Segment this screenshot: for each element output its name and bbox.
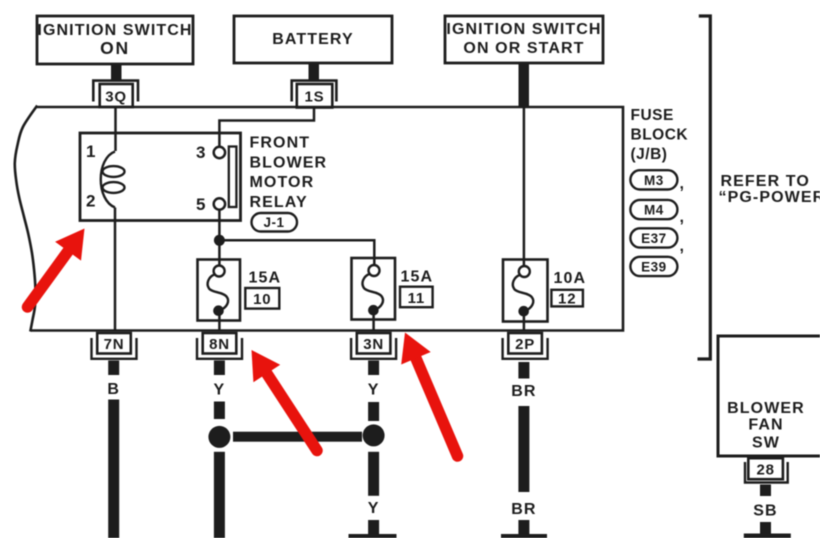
wire Y lower stub (3N)	[368, 520, 379, 534]
svg-text:BLOCK: BLOCK	[631, 127, 689, 144]
svg-text:8N: 8N	[209, 336, 230, 353]
box IGNITION SWITCH ON	[37, 16, 193, 64]
connector 3Q bracket	[93, 81, 138, 102]
red arrow 3 (3N)	[401, 333, 457, 457]
box BLOWER FAN SW	[718, 336, 820, 456]
svg-text:FUSE: FUSE	[631, 107, 674, 124]
svg-text:BATTERY: BATTERY	[272, 31, 353, 48]
svg-text:,: ,	[680, 209, 686, 226]
wire BR solid (2P)	[518, 406, 529, 492]
svg-text:2P: 2P	[515, 336, 535, 353]
svg-text:“PG-POWER: “PG-POWER	[719, 189, 820, 206]
svg-text:15A: 15A	[401, 269, 434, 286]
pin 5 contact	[214, 198, 225, 209]
svg-text:3N: 3N	[363, 336, 384, 353]
fuse block label	[631, 107, 689, 163]
pin 3 contact	[214, 147, 225, 158]
svg-text:SW: SW	[752, 435, 780, 452]
svg-text:IGNITION SWITCH: IGNITION SWITCH	[37, 22, 192, 39]
svg-text:10A: 10A	[554, 270, 587, 287]
connector 28 bracket	[745, 462, 788, 483]
fuse 12	[503, 260, 548, 331]
svg-text:BLOWER: BLOWER	[250, 155, 328, 172]
connector oval M4	[630, 200, 677, 219]
svg-text:IGNITION SWITCH: IGNITION SWITCH	[446, 21, 601, 38]
svg-text:BR: BR	[511, 501, 536, 518]
wire 1S down and left to pin3	[219, 108, 314, 148]
relay FRONT BLOWER MOTOR RELAY	[80, 133, 241, 221]
svg-text:MOTOR: MOTOR	[250, 174, 315, 191]
wire BR stub (2P)	[518, 362, 529, 379]
svg-text:7N: 7N	[104, 336, 125, 353]
wire relay pin2 down to 7N	[114, 208, 117, 331]
wire Y stub (3N)	[368, 361, 379, 376]
fuse 11	[352, 258, 396, 331]
svg-text:15A: 15A	[249, 270, 282, 287]
connector 3Q box	[100, 84, 133, 107]
svg-text:E37: E37	[641, 231, 667, 246]
relay contact bar	[229, 147, 237, 208]
connector 7N bracket	[92, 338, 137, 359]
svg-text:11: 11	[408, 290, 425, 307]
svg-text:ON OR START: ON OR START	[463, 40, 584, 57]
connector oval M3	[630, 170, 677, 189]
connector 3N box	[357, 333, 391, 354]
connector 8N box	[203, 333, 237, 354]
box BATTERY	[234, 16, 392, 63]
svg-text:M4: M4	[644, 203, 664, 218]
svg-text:RELAY: RELAY	[250, 194, 308, 211]
reference note	[719, 173, 820, 206]
connector 7N box	[97, 333, 131, 354]
fuse 12 number box	[551, 290, 583, 307]
svg-text:FRONT: FRONT	[250, 135, 311, 152]
wire Y solid below dot (8N)	[214, 452, 225, 538]
fuse 11 number box	[400, 287, 433, 308]
svg-text:B: B	[107, 381, 120, 398]
stub from IGNITION SWITCH ON OR START down to fuse block	[519, 63, 530, 108]
svg-text:28: 28	[756, 462, 774, 479]
fuse block outline top/right/bottom	[31, 107, 624, 331]
junction node	[214, 235, 225, 246]
svg-text:12: 12	[558, 291, 576, 308]
svg-text:REFER TO: REFER TO	[721, 173, 810, 190]
wire B stub	[108, 361, 119, 376]
svg-text:Y: Y	[368, 500, 380, 517]
fuse 10 number box	[245, 288, 279, 309]
bottom connector bar (SB)	[744, 534, 791, 538]
connector 3N bracket	[351, 338, 396, 359]
svg-text:1S: 1S	[305, 89, 325, 106]
svg-text:(J/B): (J/B)	[631, 146, 668, 163]
svg-text:BR: BR	[511, 383, 536, 400]
box IGNITION SWITCH ON OR START	[445, 16, 603, 63]
stub from BATTERY	[309, 63, 320, 80]
junction dot 8N	[208, 426, 230, 448]
svg-text:Y: Y	[368, 382, 380, 399]
link wire between junctions	[233, 432, 362, 442]
connector oval E37	[630, 228, 677, 247]
wire 3Q to relay pin1	[114, 107, 117, 151]
wire Y long dash below dot (3N)	[368, 452, 379, 496]
wire B	[108, 400, 119, 538]
svg-text:5: 5	[196, 195, 205, 214]
stub from IGNITION SWITCH ON	[111, 64, 122, 80]
red arrow 1 (relay)	[28, 229, 85, 308]
relay label text	[250, 135, 328, 212]
svg-text:,: ,	[680, 176, 686, 193]
svg-text:3: 3	[196, 143, 205, 162]
svg-text:FAN: FAN	[748, 417, 783, 434]
fuse block torn left edge	[15, 106, 37, 332]
svg-text:3Q: 3Q	[105, 89, 127, 106]
svg-text:Y: Y	[214, 382, 226, 399]
junction dot 3N	[363, 424, 385, 446]
red arrow 2 (8N)	[252, 350, 318, 451]
svg-text:2: 2	[86, 192, 95, 211]
connector 2P bracket	[503, 338, 548, 359]
connector oval E39	[630, 257, 677, 276]
connector 1S bracket	[292, 81, 337, 102]
svg-text:,: ,	[680, 238, 686, 255]
wire Y stub (8N)	[214, 361, 225, 376]
connector 2P box	[508, 333, 542, 354]
relay coil	[101, 152, 115, 208]
wire junction to fuse 11	[219, 240, 374, 266]
connector 28 box	[748, 458, 783, 479]
svg-text:SB: SB	[753, 503, 777, 520]
svg-text:1: 1	[86, 142, 95, 161]
connector 8N bracket	[197, 338, 242, 359]
wire Y dash (8N)	[214, 402, 225, 420]
reference bracket	[698, 16, 711, 359]
svg-text:M3: M3	[644, 173, 664, 188]
wire ignition on-or-start to fuse 12	[523, 107, 526, 266]
wire SB stub	[760, 485, 771, 497]
bottom connector bar (BR)	[501, 534, 547, 538]
fuse 10	[198, 260, 241, 331]
svg-text:10: 10	[253, 291, 271, 308]
wire BR lower stub (2P)	[518, 520, 529, 534]
wire SB lower stub	[760, 522, 771, 534]
connector J-1 oval	[252, 213, 298, 232]
svg-text:J-1: J-1	[263, 215, 284, 230]
wire Y dash (3N)	[368, 402, 379, 421]
connector 1S box	[297, 84, 333, 108]
svg-text:ON: ON	[100, 38, 130, 58]
svg-text:E39: E39	[641, 259, 667, 274]
bottom connector bar (Y)	[349, 534, 397, 538]
wire pin5 down to junction	[218, 210, 221, 267]
svg-text:BLOWER: BLOWER	[727, 400, 805, 417]
